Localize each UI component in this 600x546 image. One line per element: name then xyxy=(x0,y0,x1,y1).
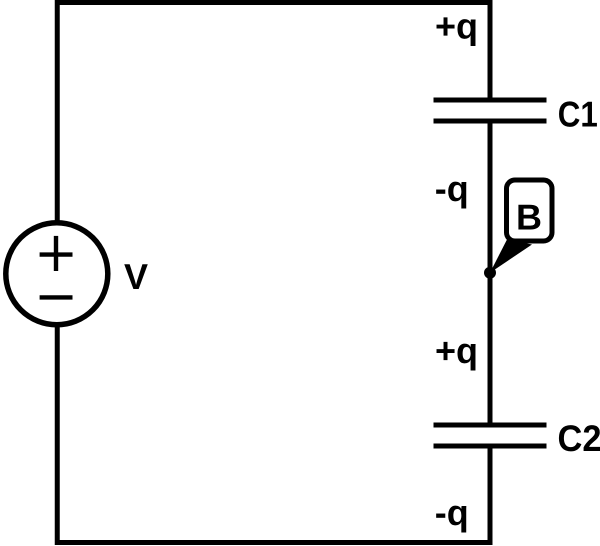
capacitor C2 xyxy=(434,425,547,446)
node B junction dot xyxy=(484,267,496,279)
wire main loop xyxy=(57,3,490,543)
svg-text:C2: C2 xyxy=(557,418,600,459)
svg-text:+q: +q xyxy=(435,5,478,46)
svg-text:-q: -q xyxy=(435,492,469,533)
svg-text:V: V xyxy=(124,256,148,297)
wire gap for C2 xyxy=(483,425,497,447)
svg-text:-q: -q xyxy=(435,168,469,209)
voltage source V1 xyxy=(6,223,108,325)
svg-text:B: B xyxy=(516,196,542,237)
svg-text:+q: +q xyxy=(435,330,478,371)
node B callout xyxy=(490,180,552,273)
wire gap for C1 xyxy=(483,100,497,122)
svg-text:C1: C1 xyxy=(558,93,598,134)
capacitor C1 xyxy=(434,100,547,121)
